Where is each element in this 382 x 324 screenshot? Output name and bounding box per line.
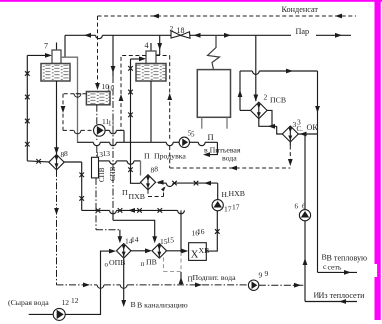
deaerator 4 head — [146, 51, 156, 64]
wire cooler 8 outlet right — [64, 162, 84, 210]
wire deaerated water main dashdot — [57, 283, 249, 289]
svg-text:5: 5 — [191, 131, 195, 139]
wire ПСВ right vertex down — [267, 110, 272, 126]
label 8 left — [61, 149, 69, 159]
boiler right leg — [226, 117, 228, 128]
gray dashed loop near heater 15 — [164, 258, 182, 272]
svg-text:СПВ: СПВ — [98, 167, 106, 182]
svg-text:СПВ: СПВ — [109, 166, 117, 181]
wire pump 11 discharge — [105, 130, 124, 142]
label 3 ОК — [293, 118, 319, 134]
deaerator 7 tank body — [41, 64, 70, 82]
wire 14 to 15 — [131, 248, 152, 253]
pump 5 — [179, 137, 189, 147]
svg-text:НХВ: НХВ — [229, 189, 245, 198]
label 15 — [160, 236, 174, 247]
svg-text:12: 12 — [62, 298, 70, 307]
wire ПХВ outlet loop dashed — [148, 187, 166, 197]
pump 11 — [94, 125, 106, 137]
label В тепловую сеть — [322, 253, 368, 272]
heat exchanger 14 ОПВ — [116, 244, 131, 259]
svg-text:(Сырая вода: (Сырая вода — [8, 298, 49, 307]
wire recirculation riser — [179, 210, 184, 285]
svg-text:ПСВ: ПСВ — [270, 96, 286, 105]
svg-text:9: 9 — [259, 271, 263, 280]
label 5 — [188, 129, 195, 139]
label ОПВ — [105, 258, 126, 269]
label Из теплосети — [314, 291, 366, 301]
svg-text:8: 8 — [154, 164, 158, 173]
dashed suction tank 10 to pump 11 — [61, 94, 94, 134]
heat exchanger 15 ПВ — [152, 244, 167, 259]
label Питьевая вода — [204, 146, 241, 163]
heat exchanger 2 ПСВ — [251, 102, 268, 119]
wire cooler 8 drain dashdot — [54, 170, 59, 285]
label П near make-up — [188, 275, 194, 284]
wire 15 to box 16 — [167, 249, 189, 254]
svg-text:Подпит. вода: Подпит. вода — [193, 273, 237, 282]
wire ПСВ bottom to heater 3 — [259, 119, 283, 134]
wire blowdown line to ПХВ — [99, 161, 141, 176]
wire В тепловую сеть outlet — [318, 270, 358, 275]
svg-text:Пар: Пар — [296, 27, 310, 36]
svg-text:12: 12 — [71, 296, 79, 305]
svg-text:П: П — [122, 188, 128, 197]
dashed recirculation loop right of deaerator 4 — [156, 56, 172, 169]
svg-text:о: о — [105, 261, 109, 269]
svg-text:П: П — [188, 275, 194, 284]
magenta top border bar — [0, 0, 382, 2]
wire ПСВ top header — [240, 69, 318, 75]
wire heated water distribution line — [82, 208, 185, 214]
svg-text:В тепловую: В тепловую — [327, 254, 368, 263]
svg-text:6: 6 — [295, 203, 299, 211]
pump 17 — [212, 200, 223, 211]
svg-text:В: В — [131, 300, 136, 309]
label Подпит. вода — [193, 273, 237, 282]
label Сырая вода — [8, 298, 49, 307]
pump 6 — [299, 210, 310, 221]
svg-text:17: 17 — [224, 205, 232, 214]
label Пар — [296, 27, 310, 36]
wire to heat network vertical — [315, 71, 320, 272]
label Конденсат — [282, 5, 319, 14]
label П below boiler — [208, 132, 214, 142]
deaerator 4 tank body — [136, 64, 166, 82]
tank 10 — [86, 92, 110, 105]
boiler drum — [197, 70, 230, 118]
label 12 — [62, 296, 79, 307]
wire condensate dashed return line — [170, 166, 291, 171]
heat exchanger 8 cooler — [49, 155, 64, 170]
svg-text:с: с — [323, 262, 327, 271]
wire ПСВ left side up — [238, 71, 251, 110]
label 11 — [102, 117, 115, 127]
svg-text:15: 15 — [167, 236, 175, 245]
wire feedwater into deaerator 7 head — [27, 53, 52, 58]
svg-text:2: 2 — [170, 24, 174, 33]
svg-text:В канализацию: В канализацию — [137, 301, 188, 310]
wire heated water line СПВ long vertical — [111, 35, 158, 243]
wire heater 3 right connection — [298, 132, 317, 137]
wire pump 17 to ПХВ heater — [157, 180, 218, 200]
wire box 16 to pump 17 — [206, 211, 219, 251]
wire deaerator 7 drain to cooler 8 — [54, 81, 59, 155]
boiler steam zigzag riser — [208, 35, 220, 69]
wire raw water riser — [65, 249, 116, 315]
svg-text:16: 16 — [197, 227, 205, 236]
wire condensate return dashed header — [98, 14, 357, 19]
label 13 — [96, 149, 111, 159]
svg-text:Конденсат: Конденсат — [282, 5, 319, 14]
label 14 — [125, 235, 139, 246]
svg-text:ОК: ОК — [307, 123, 319, 132]
label СПВ rotated — [98, 166, 117, 182]
wire pump 9 discharge — [259, 283, 305, 288]
wire drain to sewer — [121, 258, 126, 307]
pump 9 — [248, 280, 258, 290]
label ПВ — [141, 258, 157, 269]
wire tank 10 drain to filter 13 — [96, 105, 98, 158]
label ПХВ — [122, 188, 145, 201]
wire condensate drop to tank 10 — [95, 16, 100, 90]
wire cold water riser with valves x4 — [25, 55, 30, 160]
wire steam to ПСВ heater — [253, 35, 258, 101]
svg-text:9: 9 — [265, 269, 269, 278]
svg-text:п: п — [141, 260, 145, 268]
wire feedwater main to pump 5 — [78, 142, 180, 145]
heat exchanger 3 — [282, 126, 298, 142]
vent stub deaerator 4 — [150, 43, 152, 51]
label 17 НХВ — [222, 189, 245, 214]
valve 2/18 reducing valve on steam header — [171, 31, 190, 39]
label 7 — [44, 42, 48, 51]
svg-text:13: 13 — [103, 149, 111, 158]
svg-text:Продувка: Продувка — [154, 151, 186, 160]
svg-text:сеть: сеть — [328, 263, 342, 272]
label В канализацию — [131, 300, 188, 310]
wire chem water riser to ПХВ heater — [128, 59, 140, 183]
label 9 — [259, 269, 269, 280]
filter 13 column — [92, 157, 99, 178]
wire deaerator 7 head right connection — [61, 57, 78, 143]
svg-text:11: 11 — [108, 119, 115, 127]
water treatment box 16 ХВ — [189, 243, 210, 261]
magenta right border bar — [375, 0, 381, 320]
svg-text:вода: вода — [222, 154, 237, 163]
boiler left leg — [201, 117, 203, 128]
label П Продувка — [144, 151, 186, 160]
svg-text:4: 4 — [145, 41, 149, 50]
label 2 ПСВ — [264, 93, 287, 105]
label 10 — [102, 82, 115, 92]
svg-text:14: 14 — [131, 235, 139, 244]
svg-text:ХВ: ХВ — [199, 246, 210, 255]
heat exchanger 8 ПХВ — [140, 175, 155, 190]
label 8 ПХВ — [151, 164, 159, 174]
svg-text:Из теплосети: Из теплосети — [319, 291, 366, 300]
label 6 — [295, 202, 307, 211]
wire chem water into deaerator 4 head — [131, 56, 147, 61]
svg-text:ОПВ: ОПВ — [109, 258, 125, 267]
pump 12 — [53, 308, 65, 320]
svg-text:ПВ: ПВ — [146, 258, 157, 267]
svg-text:П: П — [208, 132, 214, 142]
wire raw water suction — [29, 313, 54, 315]
wire deaerator 4 drain — [150, 81, 152, 142]
svg-text:18: 18 — [177, 26, 185, 35]
svg-text:П: П — [144, 151, 150, 160]
wire steam supply to deaerator 7 — [64, 35, 66, 57]
wire to cooler 8 with valve — [27, 159, 49, 164]
wire filter 13 drain — [96, 178, 122, 243]
svg-text:17: 17 — [232, 203, 240, 212]
vent stub deaerator 7 — [56, 43, 58, 51]
svg-text:8: 8 — [64, 149, 68, 158]
wire steam header Пар — [65, 33, 351, 39]
wire pump 6 suction from network — [303, 221, 357, 304]
svg-text:7: 7 — [44, 42, 48, 51]
wire heater 3 condensate drain dashed — [288, 142, 293, 166]
svg-text:ПХВ: ПХВ — [129, 192, 145, 201]
dashed recirculation loop left of deaerator 4 — [119, 56, 146, 131]
wire pump 6 discharge — [304, 134, 306, 210]
wire pump 5 discharge to drinking water — [190, 142, 218, 157]
deaerator 7 head — [52, 50, 61, 64]
label 2 18 — [170, 24, 185, 35]
label 4 — [145, 41, 149, 50]
svg-text:С.: С. — [297, 125, 304, 133]
svg-text:2: 2 — [264, 93, 268, 102]
wire steam supply to deaerator 4 — [156, 35, 162, 55]
label 16 — [192, 227, 205, 238]
